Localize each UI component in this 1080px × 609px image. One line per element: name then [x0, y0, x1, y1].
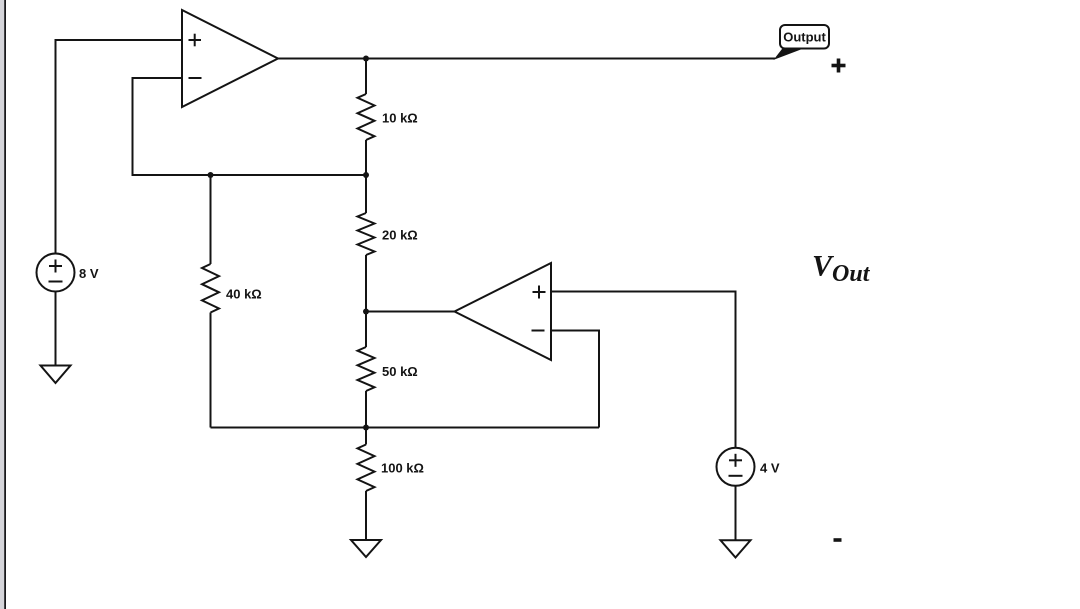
svg-text:VOut: VOut [812, 250, 871, 288]
voltage source V2 4V [717, 448, 755, 486]
resistor 50 kOhm [358, 312, 375, 428]
junction dot node A (40k top tap) [208, 172, 214, 178]
ground (below V2) [721, 540, 751, 557]
junction dot output node [363, 56, 369, 62]
wire U2 -in feedback [551, 331, 599, 428]
svg-text:10 kΩ: 10 kΩ [382, 111, 418, 126]
resistor 20 kOhm [358, 175, 375, 312]
voltage source V1 8V [37, 254, 75, 292]
ground (below V1) [41, 366, 71, 384]
wire U1 output to Output flag [278, 58, 775, 60]
svg-text:Output: Output [783, 30, 826, 45]
svg-text:8 V: 8 V [79, 266, 99, 281]
wire V2 to ground [735, 486, 737, 541]
svg-text:40 kΩ: 40 kΩ [226, 287, 262, 302]
junction dot node C (op-amp2 tap) [363, 309, 369, 315]
Output label box [780, 25, 829, 49]
wire node C to U2 output [366, 311, 455, 313]
left page edge strip [0, 0, 4, 609]
svg-text:4 V: 4 V [760, 461, 780, 476]
resistor 10 kOhm [358, 59, 375, 176]
wire V1 to ground [55, 292, 57, 366]
op-amp U2 [455, 263, 552, 360]
wire U1 +in to 8V source [56, 40, 183, 254]
op-amp U1 [182, 10, 278, 107]
svg-text:100 kΩ: 100 kΩ [381, 461, 424, 476]
wire U1 -in feedback from node B [133, 78, 367, 175]
junction dot node B (10k/20k tap) [363, 172, 369, 178]
Output flag pointer [775, 49, 802, 59]
resistor 100 kOhm [358, 428, 375, 541]
ground (below 100k) [351, 540, 381, 557]
bottom wire (40k to feedback corner) [211, 427, 600, 429]
junction dot node D (bottom tap) [363, 425, 369, 431]
plus annotation (top right) [832, 59, 846, 73]
minus annotation (bottom right) [834, 538, 842, 542]
wire U2 +in to 4V source [551, 292, 736, 448]
resistor 40 kOhm [202, 175, 219, 428]
svg-text:20 kΩ: 20 kΩ [382, 228, 418, 243]
svg-text:50 kΩ: 50 kΩ [382, 364, 418, 379]
